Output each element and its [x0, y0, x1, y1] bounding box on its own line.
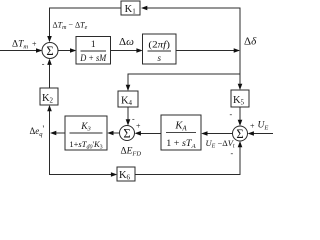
svg-text:KA: KA	[174, 121, 187, 133]
svg-text:Σ: Σ	[46, 44, 53, 58]
wire K4 to S2	[127, 107, 129, 124]
wire branch to K4	[128, 74, 240, 89]
summing junction S1	[42, 43, 58, 59]
block 1/(D+sM)	[76, 37, 111, 65]
wire K1 output down to S1	[50, 8, 122, 40]
svg-text:(2πf): (2πf)	[148, 39, 170, 50]
summing junction S2	[120, 126, 135, 141]
wire K5 to S3	[239, 107, 241, 124]
wire S2 to block K3	[109, 132, 120, 134]
summing junction S3	[233, 126, 248, 141]
wire block3 to node Δδ	[176, 50, 239, 52]
svg-text:UE: UE	[258, 121, 269, 132]
svg-text:+: +	[136, 122, 141, 131]
wire trunk down to K5	[239, 51, 241, 89]
svg-text:ΔTm: ΔTm	[12, 40, 28, 51]
svg-text:Δω: Δω	[119, 36, 134, 48]
block K4	[118, 91, 138, 107]
svg-text:+: +	[32, 40, 37, 49]
svg-text:-: -	[132, 115, 135, 124]
block K6	[117, 167, 135, 181]
svg-text:Δδ: Δδ	[244, 36, 257, 48]
wire K2 to S1 bottom	[49, 61, 51, 89]
svg-text:+: +	[250, 122, 255, 131]
svg-text:K2: K2	[42, 93, 54, 105]
block K2	[40, 88, 58, 105]
wire node up to K2	[49, 107, 51, 133]
wire S3 to block KA	[203, 133, 233, 135]
wire trunk Δδ up to K1	[143, 8, 240, 51]
wire K3 to node Δeq'	[52, 132, 65, 134]
block K1	[121, 1, 140, 15]
wire S1 to block 1/(D+sM)	[58, 50, 74, 52]
svg-text:Σ: Σ	[123, 127, 130, 141]
svg-text:Δeq': Δeq'	[30, 124, 45, 138]
svg-text:1+sTd0'K3: 1+sTd0'K3	[69, 139, 102, 151]
wire UE input	[250, 133, 274, 135]
svg-text:-: -	[42, 60, 45, 69]
svg-text:K1: K1	[125, 4, 137, 16]
block KA/(1+sTA)	[161, 115, 201, 150]
wire ΔTm input	[0, 50, 40, 52]
svg-text:UE −ΔVt: UE −ΔVt	[206, 138, 235, 150]
wire node down to bottom row	[50, 133, 116, 175]
wire KA to S2	[137, 133, 162, 135]
svg-text:-: -	[231, 149, 234, 158]
svg-text:K5: K5	[233, 95, 245, 107]
svg-text:D + sM: D + sM	[79, 53, 106, 63]
svg-text:K3: K3	[80, 122, 91, 133]
wire K6 to S3 bottom	[135, 143, 240, 175]
svg-text:K6: K6	[119, 170, 131, 182]
svg-text:K4: K4	[121, 96, 133, 108]
svg-text:1: 1	[91, 40, 96, 50]
block (2πf)/s	[143, 34, 177, 64]
svg-text:ΔEFD: ΔEFD	[121, 147, 142, 158]
svg-text:-: -	[230, 110, 233, 119]
svg-text:ΔTm − ΔTe: ΔTm − ΔTe	[53, 21, 88, 32]
svg-text:Σ: Σ	[236, 127, 243, 141]
svg-text:1 + sTA: 1 + sTA	[166, 139, 196, 150]
wire block2 to block (2πf)/s	[111, 50, 141, 52]
svg-text:s: s	[157, 53, 161, 63]
block K3/(1+sTd0'K3)	[65, 116, 107, 150]
block K5	[231, 90, 249, 107]
